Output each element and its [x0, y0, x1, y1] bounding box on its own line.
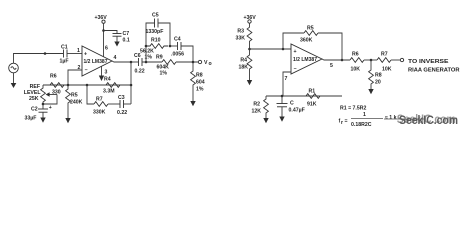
svg-text:C1: C1 — [61, 45, 68, 51]
potentiometer REF LEVEL 25K — [24, 84, 57, 104]
svg-text:1%: 1% — [196, 87, 204, 93]
terminal: to inverse RIAA generator — [400, 58, 459, 73]
wire R9 to Vo node — [176, 61, 198, 63]
wire C3 up to output vertical — [124, 103, 132, 105]
wire +input node up to R5 — [283, 33, 304, 49]
svg-text:91K: 91K — [307, 102, 317, 108]
resistor R5 360K — [300, 26, 318, 44]
wire R6 to node C — [364, 59, 377, 61]
node (output junction) — [341, 59, 344, 62]
svg-text:360K: 360K — [300, 38, 313, 44]
svg-text:0.18R2C: 0.18R2C — [351, 122, 372, 128]
svg-text:C: C — [290, 101, 294, 107]
svg-text:R2: R2 — [253, 102, 260, 108]
output wire — [322, 59, 350, 60]
svg-text:R10: R10 — [151, 38, 161, 44]
ground (C) — [279, 107, 284, 122]
node (pot bottom) — [42, 103, 45, 106]
wire supply to C7 — [104, 31, 118, 34]
wire C6 to node P — [142, 61, 162, 63]
resistor R5 240K — [66, 85, 83, 118]
wire +36V to pin 6 — [103, 23, 105, 56]
svg-text:330K: 330K — [93, 110, 106, 116]
ground (R5) — [65, 118, 70, 123]
svg-text:R6: R6 — [352, 52, 359, 58]
svg-text:240K: 240K — [70, 100, 83, 106]
node (+input / 360K tap) — [282, 48, 285, 51]
resistor R3 33K — [235, 23, 251, 49]
svg-text:604: 604 — [196, 80, 205, 86]
svg-text:.0056: .0056 — [171, 52, 184, 58]
resistor R4 3.3M — [103, 77, 120, 95]
+36V supply terminal (right) — [244, 15, 257, 23]
resistor R1 91K — [306, 89, 320, 108]
svg-text:1%: 1% — [160, 71, 168, 77]
node (supply branch) — [102, 29, 105, 32]
ground (R4) — [247, 80, 252, 85]
wire node B down to R7 — [87, 85, 94, 104]
ground (R8 right) — [368, 89, 373, 94]
svg-text:0.47µF: 0.47µF — [289, 108, 305, 114]
resistor R6 10K — [350, 52, 364, 73]
capacitor C1 1µF — [60, 45, 69, 65]
svg-text:10K: 10K — [351, 67, 361, 73]
svg-text:−: − — [294, 66, 297, 72]
wire node P up to C5 branch — [146, 23, 155, 62]
wire R5 to output vertical — [318, 33, 342, 60]
svg-text:TO INVERSE: TO INVERSE — [408, 59, 449, 65]
node P — [145, 61, 148, 64]
svg-text:C7: C7 — [123, 31, 130, 37]
svg-text:12K: 12K — [251, 109, 261, 115]
resistor R6 330 — [50, 74, 64, 96]
node C — [370, 59, 373, 62]
svg-text:4: 4 — [114, 55, 117, 61]
svg-text:5: 5 — [330, 63, 333, 69]
ground (source) — [11, 73, 17, 88]
svg-text:10K: 10K — [382, 67, 392, 73]
op-amp U2 1/2 LM387 — [291, 44, 322, 74]
svg-text:2: 2 — [78, 65, 81, 71]
svg-text:7: 7 — [285, 76, 288, 82]
svg-text:R3: R3 — [237, 29, 244, 35]
source V1 (sine generator) — [9, 63, 19, 73]
watermark — [384, 112, 458, 127]
svg-text:1%: 1% — [145, 55, 153, 61]
wire output node to C6 — [131, 61, 139, 63]
svg-text:R9: R9 — [156, 55, 163, 61]
wire C1 to op-amp pin 1 — [67, 53, 82, 55]
node Vo junction — [192, 61, 195, 64]
svg-text:3: 3 — [105, 70, 108, 76]
svg-text:=: = — [345, 119, 348, 125]
svg-text:1/2 LM387: 1/2 LM387 — [293, 57, 317, 63]
op-amp U1 1/2 LM387 — [82, 46, 112, 76]
resistor R8 20 — [369, 60, 382, 89]
capacitor C7 0.1 — [113, 31, 130, 44]
ground (R8) — [190, 101, 195, 106]
node A (R5 tap) — [67, 84, 70, 87]
svg-text:+: + — [84, 52, 87, 58]
terminal Vo — [198, 60, 211, 67]
svg-text:−: − — [85, 68, 88, 74]
svg-text:1: 1 — [363, 112, 366, 118]
svg-text:+36V: +36V — [95, 15, 108, 21]
resistor R8 604 1% — [191, 62, 205, 101]
pin 3 stub — [101, 67, 103, 76]
pin 4 output wire — [112, 61, 131, 62]
wire pin 2 to rail — [68, 70, 82, 85]
svg-text:R1 = 7.5R2: R1 = 7.5R2 — [340, 106, 367, 112]
-input rail — [266, 95, 342, 97]
svg-text:≈ 1 k: ≈ 1 k — [385, 115, 397, 121]
svg-text:20: 20 — [375, 80, 381, 86]
capacitor C4 .0056 — [171, 37, 184, 58]
svg-text:R7: R7 — [381, 52, 388, 58]
svg-text:RIAA GENERATOR: RIAA GENERATOR — [408, 68, 460, 74]
svg-text:25K: 25K — [29, 96, 39, 102]
svg-text:18K: 18K — [238, 65, 248, 71]
svg-text:R4: R4 — [104, 77, 111, 83]
capacitor C 0.47µF — [277, 96, 305, 114]
svg-text:1: 1 — [77, 48, 80, 54]
svg-text:3.3M: 3.3M — [103, 89, 115, 95]
ground (R2) — [263, 118, 268, 123]
resistor R7 330K — [93, 97, 108, 116]
svg-text:o: o — [209, 61, 212, 67]
+36V supply terminal (left) — [95, 15, 108, 23]
capacitor C3 0.22 — [117, 95, 127, 116]
svg-text:33K: 33K — [235, 36, 245, 42]
ground (C2) — [40, 112, 45, 123]
wire R7 to C3 — [108, 103, 120, 105]
wire -input to rail — [283, 72, 291, 96]
svg-text:r: r — [341, 120, 343, 126]
resistor R7 10K — [377, 52, 392, 73]
wire source to C1 — [14, 54, 64, 64]
resistor R9 604K 1% — [156, 55, 176, 77]
svg-text:33µF: 33µF — [25, 116, 37, 122]
node (R10 right) — [169, 45, 172, 48]
wire C5 to right leg — [158, 23, 170, 46]
ground (pin 3) — [99, 76, 104, 82]
svg-text:1330pF: 1330pF — [146, 29, 164, 35]
wire R7 to terminal — [391, 59, 400, 61]
svg-text:R5: R5 — [71, 93, 78, 99]
node (R10 left) — [145, 45, 148, 48]
resistor R4 18K — [238, 49, 251, 80]
node (C tap) — [281, 95, 284, 98]
feedback rail — [43, 84, 131, 86]
formula fr — [339, 112, 397, 128]
svg-text:R1: R1 — [309, 89, 316, 95]
svg-text:+: + — [49, 105, 52, 111]
svg-text:1/2 LM387: 1/2 LM387 — [84, 59, 108, 65]
svg-text:C5: C5 — [152, 13, 159, 19]
svg-text:R8: R8 — [375, 73, 382, 79]
wire divider to op-amp + input — [250, 48, 292, 50]
node (output junction) — [130, 61, 133, 64]
svg-text:R4: R4 — [240, 58, 247, 64]
wire R10 to C4 — [170, 45, 178, 47]
svg-text:0.22: 0.22 — [135, 69, 145, 75]
wire C4 down to output node — [181, 46, 193, 62]
capacitor C5 1330pF — [146, 13, 164, 36]
svg-text:R7: R7 — [96, 97, 103, 103]
svg-text:C3: C3 — [118, 95, 125, 101]
capacitor C2 33µF — [25, 104, 52, 122]
svg-text:V: V — [204, 60, 208, 66]
svg-text:1µF: 1µF — [60, 59, 69, 65]
svg-text:0.1: 0.1 — [123, 38, 130, 44]
node (feedback rail right) — [130, 84, 133, 87]
capacitor C6 0.22 — [134, 53, 145, 75]
svg-text:R5: R5 — [307, 26, 314, 32]
resistor R10 56.2K 1% — [140, 38, 168, 61]
resistor R2 12K — [251, 96, 268, 118]
ground (C7) — [114, 36, 119, 46]
node (dot on input line) — [44, 52, 47, 55]
svg-text:C2: C2 — [31, 107, 38, 113]
wire output down to feedback rail — [130, 62, 132, 104]
svg-text:6: 6 — [105, 46, 108, 52]
svg-text:0.22: 0.22 — [117, 110, 127, 116]
svg-text:C4: C4 — [174, 37, 181, 43]
svg-text:R8: R8 — [196, 73, 203, 79]
node B (R7 tap) — [86, 84, 89, 87]
svg-text:R6: R6 — [50, 74, 57, 80]
node (divider tap) — [248, 48, 251, 51]
svg-text:+: + — [294, 49, 297, 55]
